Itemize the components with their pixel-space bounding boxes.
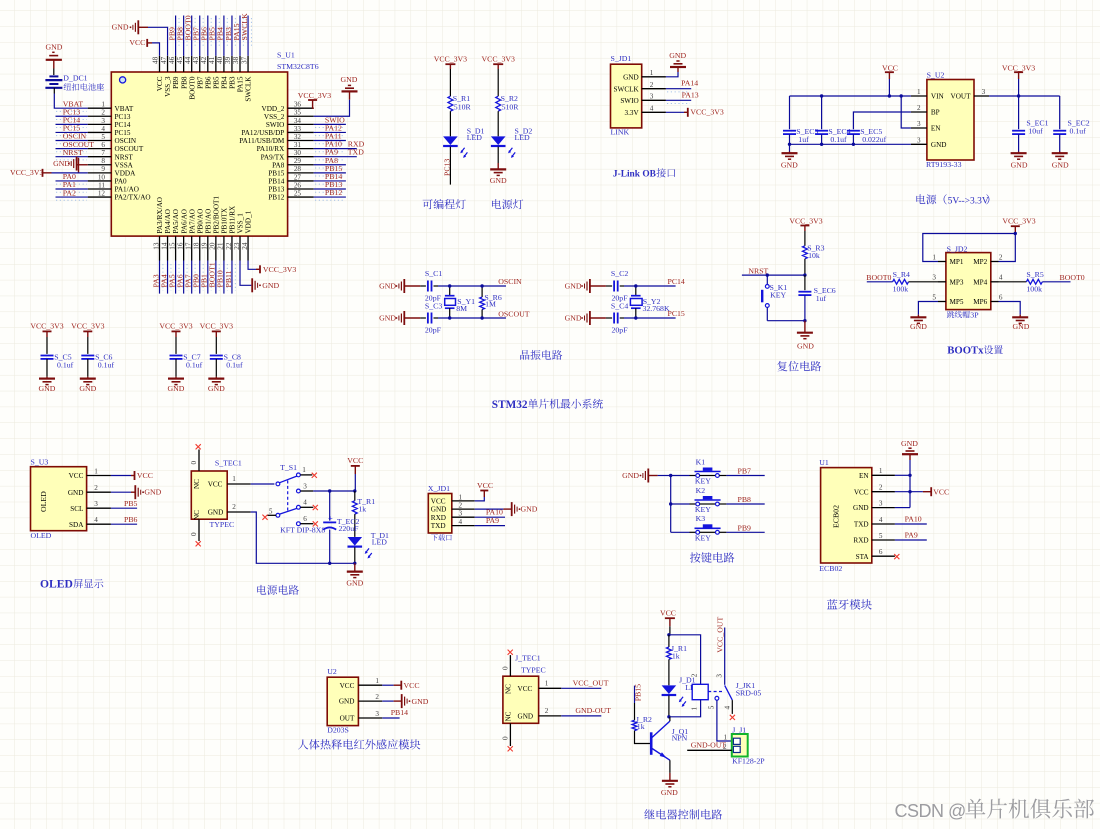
wire + net label PA13 [666, 99, 691, 101]
junction S_R6 top [480, 284, 483, 287]
svg-text:GND: GND [669, 51, 686, 60]
wire + net label PB7 [719, 475, 726, 477]
svg-text:EN: EN [859, 472, 869, 480]
svg-text:6: 6 [999, 293, 1003, 301]
svg-text:PB13: PB13 [268, 186, 284, 194]
wire NRST [742, 274, 805, 276]
svg-text:VCC: VCC [477, 481, 493, 490]
svg-text:GND: GND [901, 439, 918, 448]
led S_D1 [443, 136, 458, 145]
wire PC14 bus [620, 285, 624, 287]
svg-text:VCC: VCC [208, 481, 223, 489]
mcu left pin 3 PC14 [88, 123, 112, 125]
junction EC2 bottom [328, 562, 331, 565]
svg-text:2: 2 [459, 502, 463, 510]
title 可编程灯 [423, 199, 466, 209]
svg-text:1: 1 [459, 493, 463, 501]
svg-text:TXD: TXD [348, 148, 364, 157]
svg-text:3: 3 [101, 117, 105, 125]
svg-text:3: 3 [459, 510, 463, 518]
svg-text:D_DC1: D_DC1 [63, 73, 87, 82]
capacitor S_EC6 1uf [804, 275, 806, 290]
svg-text:SWCLK: SWCLK [245, 76, 253, 102]
svg-text:15: 15 [168, 242, 176, 250]
svg-text:STM32: STM32 [492, 399, 528, 411]
mcu U1 body STM32C8T6 [111, 72, 287, 236]
svg-text:VCC: VCC [882, 63, 898, 72]
wire + net label OSCOUT (pin 6) [56, 148, 88, 150]
crystal circuit 2: ground top-left [589, 279, 591, 293]
svg-text:BP: BP [931, 109, 940, 117]
mcu bottom pin 24 VDD_1 [247, 236, 249, 260]
svg-text:KEY: KEY [770, 290, 786, 299]
net label BOOT0 right [1042, 281, 1070, 283]
svg-text:J-Link OB: J-Link OB [613, 170, 656, 180]
svg-text:PB0/AO: PB0/AO [196, 209, 204, 234]
svg-text:5: 5 [879, 532, 883, 540]
svg-text:32: 32 [294, 133, 302, 141]
switch contact 3 [297, 489, 301, 493]
svg-text:3: 3 [375, 710, 379, 718]
J_TEC1 top shield pin [509, 655, 511, 676]
svg-text:LED: LED [467, 133, 483, 142]
ground below reset [804, 321, 806, 333]
svg-text:OLED: OLED [39, 491, 48, 512]
svg-text:GND: GND [379, 314, 396, 323]
junction cap bottom [803, 319, 806, 322]
junction LED-bus [353, 562, 356, 565]
wire + net label PA11 (pin 32) [314, 140, 346, 142]
svg-text:16: 16 [176, 242, 184, 250]
mcu left pin 9 VDDA [88, 172, 112, 174]
svg-text:GND: GND [797, 342, 814, 351]
svg-text:SRD-05: SRD-05 [736, 689, 762, 698]
mcu bottom pin 18 PB0/AO [199, 236, 201, 260]
svg-text:41: 41 [208, 56, 216, 64]
svg-text:K3: K3 [696, 514, 706, 523]
svg-text:VCC_3V3: VCC_3V3 [263, 265, 296, 274]
STA pin no-connect [894, 554, 899, 559]
svg-text:PA4/AO: PA4/AO [164, 209, 172, 234]
svg-text:PA6/AO: PA6/AO [180, 209, 188, 234]
wire GND pin3 [895, 507, 910, 509]
svg-text:NRST: NRST [748, 266, 768, 275]
mcu bottom pin 23 VSS_1 [239, 236, 241, 260]
bluetooth pin 4 TXD [872, 523, 895, 525]
svg-text:5V-->3.3V: 5V-->3.3V [948, 196, 989, 206]
svg-text:PB5: PB5 [124, 499, 138, 508]
svg-text:PB7: PB7 [196, 76, 204, 89]
X_JD1 pin 1 VCC [452, 500, 475, 502]
mcu right pin 34 SWIO [288, 123, 314, 125]
svg-text:S_C2: S_C2 [611, 269, 628, 278]
svg-text:LED: LED [515, 133, 531, 142]
svg-text:12: 12 [98, 189, 106, 197]
wire key bottom to cap bottom [767, 320, 805, 322]
wire + net label VBAT (pin 1) [54, 94, 87, 109]
resistor J_R1 1k [668, 635, 670, 647]
svg-text:VBAT: VBAT [115, 105, 134, 113]
bluetooth pin 2 VCC [872, 491, 895, 493]
svg-text:KEY: KEY [695, 505, 711, 514]
svg-text:PB6: PB6 [124, 515, 138, 524]
mcu right pin 29 PA8 [288, 164, 314, 166]
svg-text:25: 25 [294, 189, 302, 197]
typec pin 2 GND [227, 511, 251, 513]
svg-text:PA2/TX/AO: PA2/TX/AO [115, 194, 151, 202]
svg-text:PA11/USB/DM: PA11/USB/DM [239, 137, 285, 145]
junction NRST-key [766, 273, 769, 276]
pir pin 2 GND [358, 700, 382, 702]
svg-text:1: 1 [232, 475, 236, 483]
svg-text:VCC: VCC [340, 682, 355, 690]
wire pin8 to pin9 vertical [78, 158, 80, 173]
title 复位电路 [777, 361, 821, 371]
crystal circuit 1: ground top-left [403, 279, 405, 293]
power VCC_3V3 at mcu pin 24 VDD_1 [248, 261, 256, 270]
svg-text:PB1/AO: PB1/AO [204, 209, 212, 234]
svg-text:VCC_3V3: VCC_3V3 [789, 216, 822, 225]
mcu top pin 42 PB6 [207, 56, 209, 72]
svg-text:GND: GND [208, 384, 225, 393]
svg-text:X_JD1: X_JD1 [428, 484, 450, 493]
svg-text:5: 5 [269, 507, 273, 515]
mcu left pin 5 OSCIN [88, 140, 112, 142]
svg-text:VCC_3V3: VCC_3V3 [482, 55, 515, 64]
wire + net label PB3 (pin 39) [231, 16, 233, 56]
mcu left pin 11 PA1/AO [88, 188, 112, 190]
mcu left pin 8 VSSA [88, 164, 112, 166]
svg-text:GND: GND [622, 471, 639, 480]
regulator left pin VIN [911, 95, 927, 97]
svg-text:T_S1: T_S1 [280, 463, 297, 472]
title 人体热释电红外感应模块 [298, 739, 420, 749]
oled pin 3 SCL [87, 507, 111, 509]
wire + net label PA10 (TXD) [895, 523, 927, 525]
svg-text:PB9: PB9 [738, 523, 752, 532]
svg-text:OUT: OUT [340, 715, 355, 723]
wire + net label PB8 [719, 503, 726, 505]
jumper pins MP5 MP6 [938, 301, 946, 303]
junction key2 [669, 502, 672, 505]
junction VCC riser [908, 490, 911, 493]
svg-text:33: 33 [294, 125, 302, 133]
svg-text:9: 9 [101, 165, 105, 173]
svg-text:RXD: RXD [853, 537, 868, 545]
svg-text:GND: GND [781, 160, 798, 169]
svg-text:VCC: VCC [69, 472, 84, 480]
connector S_JD1 J-Link body [611, 64, 642, 128]
mcu bottom pin 21 PB10TX [223, 236, 225, 260]
svg-text:VCC: VCC [854, 488, 869, 496]
title 晶振电路 [520, 350, 562, 360]
svg-text:0.1uf: 0.1uf [186, 360, 203, 369]
svg-text:VCC_3V3: VCC_3V3 [1002, 217, 1035, 226]
svg-text:VCC_3V3: VCC_3V3 [30, 321, 63, 330]
svg-text:4: 4 [999, 274, 1003, 282]
svg-text:PB11/RX: PB11/RX [229, 205, 237, 234]
svg-text:BOOT0: BOOT0 [1060, 273, 1085, 282]
svg-text:14: 14 [160, 242, 168, 250]
mcu left pin 6 OSCOUT [88, 148, 112, 150]
svg-text:30: 30 [294, 149, 302, 157]
svg-text:TYPEC: TYPEC [521, 666, 546, 675]
svg-text:OSCIN: OSCIN [498, 277, 522, 286]
mcu right pin 30 PA9/TX [288, 156, 314, 158]
value 纽扣电池座 [64, 83, 104, 91]
resistor S_R1 510R [448, 96, 453, 111]
mcu top pin 47 VSS_3 [167, 56, 169, 72]
svg-text:NRST: NRST [115, 153, 134, 161]
jumper pins MP1 MP2 [938, 261, 946, 263]
svg-text:510R: 510R [454, 103, 472, 112]
svg-text:4: 4 [101, 125, 105, 133]
mcu top pin 41 PB5 [215, 56, 217, 72]
svg-text:4: 4 [459, 518, 463, 526]
svg-text:3: 3 [932, 274, 936, 282]
svg-text:VDDA: VDDA [115, 169, 137, 177]
svg-text:GND: GND [53, 159, 70, 168]
svg-text:VCC_3V3: VCC_3V3 [690, 108, 723, 117]
svg-text:LINK: LINK [611, 128, 630, 137]
svg-text:VCC_OUT: VCC_OUT [573, 678, 609, 687]
svg-text:2: 2 [650, 81, 654, 89]
svg-text:LED: LED [372, 538, 388, 547]
svg-text:510R: 510R [502, 103, 520, 112]
ground below transistor [669, 773, 671, 781]
svg-text:8: 8 [101, 157, 105, 165]
ground below S_EC2 [1052, 152, 1068, 154]
svg-text:OSCOUT: OSCOUT [115, 145, 144, 153]
capacitor S_C4 20pF [606, 317, 612, 319]
mcu left pin 10 PA0 [88, 180, 112, 182]
capacitor S_EC4 0.1uf [821, 96, 823, 129]
wire + net label OSCIN (pin 5) [56, 140, 88, 142]
ground at mcu pin 35 VSS_2 [314, 100, 350, 117]
svg-text:STM32C8T6: STM32C8T6 [277, 62, 319, 71]
wire + net label PB14 [382, 717, 399, 719]
svg-text:VCC: VCC [129, 38, 145, 47]
capacitor S_EC1 10uf [1018, 96, 1020, 129]
power VCC at bluetooth pin2 [895, 491, 923, 493]
svg-text:VCC_3V3: VCC_3V3 [200, 321, 233, 330]
svg-text:PB15: PB15 [268, 169, 284, 177]
junction EN riser [900, 94, 903, 97]
junction S_EC3 bottom [788, 143, 791, 146]
svg-text:PB10TX: PB10TX [221, 207, 229, 233]
svg-text:KFT DIP-8X8: KFT DIP-8X8 [280, 525, 325, 534]
resistor J_R2 1k with PB15 [634, 686, 636, 703]
svg-text:EN: EN [931, 125, 941, 133]
svg-text:1: 1 [94, 468, 98, 476]
power VCC at oled pin1 [111, 475, 131, 477]
svg-text:BOOT0: BOOT0 [866, 273, 891, 282]
svg-text:1: 1 [917, 88, 921, 96]
pir U2 body [327, 677, 358, 725]
svg-text:PA0: PA0 [115, 178, 128, 186]
mcu bottom pin 17 PA7/AO [191, 236, 193, 260]
wire + net label BOOT0 (pin 44) [191, 16, 193, 56]
svg-text:PC13: PC13 [115, 113, 131, 121]
capacitor S_C2 20pF [606, 285, 612, 287]
wire + net label PA4 (pin 14) [167, 261, 169, 294]
ground at X_JD1 pin2 [475, 508, 504, 510]
junction VCC branch [667, 633, 670, 636]
wire + net label PA9 (pin 30) [314, 156, 357, 158]
svg-text:GND: GND [46, 42, 63, 51]
svg-text:20pF: 20pF [425, 325, 442, 334]
svg-text:PC15: PC15 [668, 309, 685, 318]
junction VCC_3V3 loop [1014, 232, 1017, 235]
svg-text:GND-OUT: GND-OUT [575, 706, 611, 715]
svg-text:2: 2 [545, 707, 549, 715]
svg-text:PA3/RX/AO: PA3/RX/AO [156, 197, 164, 233]
svg-text:VCC: VCC [518, 685, 533, 693]
switch contact 6 [297, 522, 301, 526]
crystal S_Y2 32.768K [635, 286, 637, 296]
typec S_TEC1 body [191, 471, 227, 519]
svg-text:0.1uf: 0.1uf [830, 135, 847, 144]
wire VIN bus [790, 95, 911, 97]
mcu right pin 32 PA11/USB/DM [288, 140, 314, 142]
svg-text:GND: GND [910, 322, 927, 331]
wire + net label PB10 (pin 21) [223, 261, 225, 294]
wire + net label PB12 (pin 25) [314, 196, 346, 198]
svg-text:35: 35 [294, 109, 302, 117]
oled pin 4 SDA [87, 523, 111, 525]
svg-text:3: 3 [917, 120, 921, 128]
bluetooth pin 1 EN [872, 474, 895, 476]
svg-text:PB8: PB8 [180, 76, 188, 89]
svg-text:GND: GND [1052, 160, 1069, 169]
svg-text:1: 1 [302, 466, 306, 474]
ground at mcu pin 23 VSS_1 [240, 261, 251, 286]
svg-text:PA7/AO: PA7/AO [188, 209, 196, 234]
wire + net label PB5 (pin 41) [215, 16, 217, 56]
svg-text:47: 47 [160, 56, 168, 64]
svg-text:KF128-2P: KF128-2P [732, 756, 765, 765]
title 电源电路 [257, 585, 299, 595]
net label VCC_OUT rotated [724, 628, 726, 685]
svg-text:39: 39 [224, 56, 232, 64]
svg-text:21: 21 [217, 242, 225, 250]
junction NRST-R3 [803, 273, 806, 276]
capacitor T_EC2 220uF polarized [329, 491, 331, 521]
svg-text:3: 3 [94, 500, 98, 508]
power VCC_3V3 at S_JD1 pin 4 [666, 111, 684, 113]
svg-text:5: 5 [932, 293, 936, 301]
svg-text:NC: NC [193, 510, 201, 520]
resistor S_R2 510R [496, 96, 501, 111]
svg-text:KEY: KEY [695, 477, 711, 486]
svg-text:GND: GND [39, 384, 56, 393]
wire + net label PA10 (pin 31) [314, 148, 357, 150]
mcu left pin 7 NRST [88, 156, 112, 158]
svg-text:BOOTx: BOOTx [947, 344, 984, 356]
svg-text:0.1uf: 0.1uf [98, 360, 115, 369]
svg-text:GND: GND [565, 282, 582, 291]
wire + net label PB11 (pin 22) [231, 261, 233, 294]
svg-text:PA9/TX: PA9/TX [261, 153, 286, 161]
svg-text:S_U2: S_U2 [927, 71, 945, 80]
connector pin 4 3.3V [642, 111, 666, 113]
wire OSCOUT bus [434, 317, 439, 319]
svg-text:1uf: 1uf [816, 294, 827, 303]
resistor T_R1 1k [354, 491, 356, 501]
svg-text:48: 48 [152, 56, 160, 64]
svg-text:K1: K1 [696, 457, 706, 466]
svg-text:S_C4: S_C4 [611, 302, 628, 311]
svg-text:43: 43 [192, 56, 200, 64]
svg-text:S_C3: S_C3 [425, 302, 442, 311]
svg-text:PC14: PC14 [115, 121, 131, 129]
svg-text:PB2/BOOT1: PB2/BOOT1 [212, 196, 220, 234]
wire + net label PB6 (pin 42) [207, 16, 209, 56]
svg-text:17: 17 [185, 242, 193, 250]
wire + net label GND-OUT to J_J1 pin2 [687, 749, 732, 751]
mcu bottom pin 19 PB1/AO [207, 236, 209, 260]
wire PC13 below S_D1 [449, 147, 451, 185]
typec bottom shield pin 0 [198, 519, 200, 541]
mcu right pin 28 PB15 [288, 172, 314, 174]
svg-text:VCC: VCC [137, 471, 153, 480]
junction VCC-VIN [888, 94, 891, 97]
svg-text:PA5/AO: PA5/AO [172, 209, 180, 234]
svg-text:1: 1 [879, 467, 883, 475]
resistor S_R5 100k [999, 281, 1027, 283]
svg-text:VCC_3V3: VCC_3V3 [434, 55, 467, 64]
power VCC_3V3 at mcu pin 36 VDD_2 [313, 100, 314, 108]
svg-text:PB6: PB6 [204, 76, 212, 89]
title 蓝牙模块 [827, 599, 872, 610]
svg-text:S_JD1: S_JD1 [611, 54, 632, 63]
svg-text:PB15: PB15 [633, 684, 642, 701]
wire VOUT bus [989, 95, 1060, 97]
svg-text:NC: NC [504, 711, 512, 721]
svg-text:VSS_2: VSS_2 [264, 113, 285, 121]
svg-text:PC14: PC14 [668, 277, 685, 286]
svg-text:2: 2 [94, 484, 98, 492]
svg-text:OLED: OLED [31, 531, 52, 540]
svg-text:GND: GND [521, 505, 538, 514]
wire GND bus [790, 143, 911, 145]
wire + net label PB13 (pin 26) [314, 188, 346, 190]
title 电源灯 [492, 199, 523, 209]
typec top shield pin 0 [198, 450, 200, 472]
mcu top pin 38 PA15 [239, 56, 241, 72]
capacitor S_EC5 0.022uf [847, 130, 860, 132]
svg-text:PB4: PB4 [221, 76, 229, 89]
svg-text:+: + [328, 513, 333, 523]
svg-text:18: 18 [193, 242, 201, 250]
svg-text:VDD_2: VDD_2 [262, 105, 285, 113]
title 按键电路 [690, 552, 735, 563]
wire + net label PB8 (pin 45) [183, 16, 185, 56]
svg-text:OSCOUT: OSCOUT [498, 310, 529, 319]
oled pin 2 GND [87, 491, 111, 493]
junction S_Y2 top [634, 284, 637, 287]
wire + net label GND-OUT [539, 715, 562, 717]
svg-text:PB3: PB3 [229, 76, 237, 89]
svg-text:7: 7 [101, 149, 105, 157]
svg-text:MP4: MP4 [973, 278, 987, 286]
mcu bottom pin 14 PA4/AO [167, 236, 169, 260]
led S_D2 [491, 136, 506, 145]
wire + net label PA3 (pin 13) [159, 261, 161, 294]
resistor S_R6 1M [481, 286, 483, 297]
mcu right pin 25 PB12 [288, 196, 314, 198]
svg-text:VCC_OUT: VCC_OUT [715, 617, 724, 653]
